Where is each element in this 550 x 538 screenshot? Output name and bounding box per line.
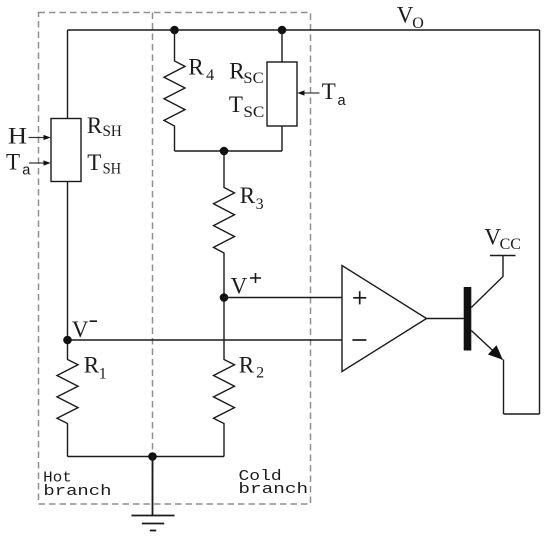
svg-text:1: 1 <box>99 366 107 383</box>
wire: bottom link to emitter <box>504 413 540 415</box>
svg-text:SH: SH <box>103 123 123 140</box>
wire: RSC top lead <box>281 30 283 62</box>
svg-text:T: T <box>87 150 101 175</box>
emitter arrowhead <box>488 345 503 360</box>
resistor R1 zigzag <box>57 340 78 457</box>
wire: RSH bottom to V- node <box>67 182 69 341</box>
svg-text:a: a <box>22 162 31 179</box>
svg-text:SC: SC <box>243 104 264 121</box>
dashed divider line between hot and cold branch <box>152 13 154 505</box>
svg-text:CC: CC <box>500 236 521 253</box>
wire: emitter down to bottom link <box>503 360 505 415</box>
resistor R3 zigzag <box>214 151 235 298</box>
svg-text:4: 4 <box>206 67 214 84</box>
svg-text:T: T <box>322 79 336 104</box>
junction dot top of RSC <box>278 26 287 35</box>
transistor collector lead <box>471 256 503 308</box>
junction dot top of R4 <box>170 26 179 35</box>
dashed boundary box (hot/cold branches) <box>39 13 311 505</box>
svg-text:V: V <box>72 317 89 342</box>
Ta input arrow (left) <box>29 162 45 164</box>
thermistor RSC box <box>267 62 297 126</box>
Ta input arrow (right, into RSC) <box>304 92 320 94</box>
op-amp minus input symbol <box>352 339 366 341</box>
svg-text:R: R <box>240 183 256 208</box>
wire: right rail down from Vo <box>539 30 541 414</box>
junction dot mid link <box>220 147 229 156</box>
svg-text:SC: SC <box>243 70 263 87</box>
svg-text:branch: branch <box>43 483 111 500</box>
svg-text:2: 2 <box>256 364 264 381</box>
Vcc terminal bar <box>490 255 516 257</box>
resistor R4 zigzag <box>164 30 185 151</box>
thermistor RSH box <box>51 119 81 182</box>
wire: op-amp output to base <box>427 318 464 320</box>
op-amp plus input symbol <box>353 291 366 304</box>
wire: bottom ground bus <box>68 456 225 458</box>
svg-text:3: 3 <box>256 196 264 213</box>
svg-text:SH: SH <box>103 161 122 178</box>
wire: V+ node to op-amp <box>224 297 342 299</box>
resistor R2 zigzag <box>214 298 235 457</box>
wire: RSC bottom lead <box>281 126 283 151</box>
transistor emitter lead <box>471 331 502 360</box>
svg-text:T: T <box>6 150 20 175</box>
wire: V- node to op-amp <box>68 339 343 341</box>
op-amp U1 triangle <box>342 266 427 372</box>
wire: top Vo rail <box>68 29 540 31</box>
ground symbol <box>132 457 175 531</box>
svg-text:R: R <box>84 353 100 378</box>
transistor Q1 base bar <box>464 287 472 351</box>
svg-text:R: R <box>87 113 103 138</box>
svg-text:V: V <box>397 2 414 27</box>
junction dot V+ node <box>220 293 229 302</box>
svg-text:T: T <box>229 92 243 117</box>
svg-text:O: O <box>412 15 424 32</box>
H input arrow <box>29 137 45 139</box>
svg-text:a: a <box>337 93 346 110</box>
svg-text:R: R <box>188 55 204 80</box>
wire: left branch top segment <box>67 30 69 119</box>
svg-text:H: H <box>8 124 27 149</box>
svg-text:R: R <box>239 353 255 378</box>
wire: R4/RSC bottom link <box>175 150 283 152</box>
junction dot at ground bus <box>148 452 157 461</box>
svg-text:branch: branch <box>238 481 308 498</box>
svg-text:V: V <box>231 274 248 299</box>
junction dot V- node <box>63 336 72 345</box>
